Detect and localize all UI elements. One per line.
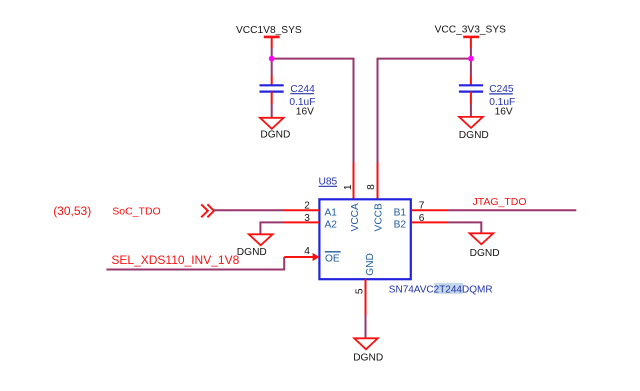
svg-text:SN74AVC2T244DQMR: SN74AVC2T244DQMR (389, 284, 493, 295)
pin 4 stub with arrow (284, 253, 319, 261)
svg-text:SEL_XDS110_INV_1V8: SEL_XDS110_INV_1V8 (111, 253, 239, 267)
ground DGND (C245) (459, 117, 489, 141)
svg-text:16V: 16V (296, 107, 314, 118)
svg-text:DGND: DGND (237, 247, 267, 258)
pin 2 stub (283, 209, 319, 211)
part number SN74AVC2T244DQMR (389, 283, 493, 295)
svg-text:JTAG_TDO: JTAG_TDO (473, 196, 527, 208)
pin 5 stub (365, 279, 367, 315)
pin 7 stub (412, 209, 448, 211)
svg-text:(30,53): (30,53) (53, 204, 91, 218)
svg-text:A2: A2 (325, 219, 338, 230)
wire SEL_XDS110_INV_1V8 (106, 257, 284, 270)
value label C244 (289, 84, 315, 118)
capacitor C244 (260, 76, 284, 105)
svg-text:DGND: DGND (353, 352, 383, 363)
ground DGND (pin 5) (353, 338, 383, 363)
value label C245 (489, 84, 515, 118)
svg-text:OE: OE (325, 254, 340, 265)
svg-text:SoC_TDO: SoC_TDO (112, 205, 160, 217)
pin name OE (active low) (325, 252, 341, 265)
node junction VCC_3V3 (468, 56, 474, 62)
svg-text:A1: A1 (325, 207, 338, 218)
power symbol VCC_3V3_SYS (435, 25, 507, 48)
svg-text:8: 8 (366, 184, 377, 190)
reference designator U85 (319, 177, 338, 188)
off-page connector chevron (201, 204, 214, 217)
svg-text:GND: GND (365, 253, 376, 276)
wire GND to ground (365, 316, 367, 339)
ground DGND (B2) (470, 233, 500, 259)
ground DGND (C244) (260, 118, 290, 141)
capacitor C245 (459, 76, 483, 105)
wire SoC_TDO (214, 209, 283, 211)
svg-text:5: 5 (354, 288, 365, 294)
pin 6 stub (412, 221, 448, 223)
svg-text:B2: B2 (394, 219, 407, 230)
svg-text:DGND: DGND (470, 248, 500, 259)
pin 1 stub (353, 163, 355, 199)
pin 3 stub (283, 221, 319, 223)
power symbol VCC1V8_SYS (236, 25, 302, 48)
svg-text:DGND: DGND (260, 129, 290, 140)
wire C245 to ground (470, 104, 472, 117)
svg-text:VCC_3V3_SYS: VCC_3V3_SYS (435, 25, 507, 36)
svg-text:VCC1V8_SYS: VCC1V8_SYS (236, 25, 302, 36)
node junction VCC1V8 (269, 56, 275, 62)
svg-text:DGND: DGND (459, 130, 489, 141)
svg-text:B1: B1 (394, 207, 407, 218)
ground DGND (A2) (237, 234, 273, 258)
svg-text:1: 1 (343, 184, 354, 190)
wire B2 to ground (448, 222, 482, 233)
wire JTAG_TDO (448, 209, 577, 211)
svg-text:VCCA: VCCA (350, 203, 361, 232)
wire VCC1V8 to pin 1 (272, 59, 354, 163)
wire C244 to ground (271, 104, 273, 117)
wire A2 to ground (260, 222, 283, 234)
op-amp U85 body (319, 199, 410, 279)
wire VCC1V8 stem (271, 48, 273, 76)
svg-text:4: 4 (304, 246, 310, 257)
pin 8 stub (377, 163, 379, 199)
wire VCC_3V3 stem (470, 48, 472, 76)
svg-text:16V: 16V (495, 107, 513, 118)
svg-text:VCCB: VCCB (373, 203, 384, 232)
wire VCC_3V3 to pin 8 (378, 59, 471, 163)
